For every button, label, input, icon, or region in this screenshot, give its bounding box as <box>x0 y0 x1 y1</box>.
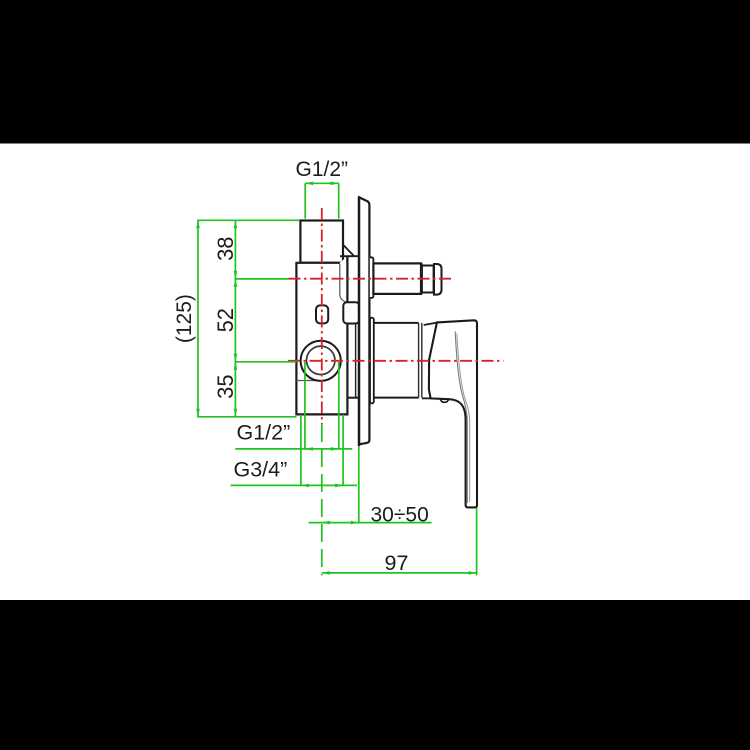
center extension dashed <box>321 424 323 575</box>
hose nut <box>422 266 434 293</box>
behind-plate upper box left edge <box>346 256 348 263</box>
inlet pipe (top) <box>300 221 343 263</box>
hub collar joint lines <box>418 323 420 398</box>
38/52/35 dimension line <box>234 220 236 417</box>
handle joint segments <box>422 323 437 399</box>
valve body <box>296 256 347 414</box>
G1/2 leader line <box>235 448 352 450</box>
top G1/2 dimension line <box>305 182 339 184</box>
bottom letterbox band <box>0 600 750 750</box>
35 arrow bottom <box>234 409 238 417</box>
mid layer line between bracket and step <box>355 324 357 398</box>
(125) top/bottom arrows <box>196 220 200 228</box>
extension line 52/35 split <box>235 361 297 363</box>
outlet port inner circle <box>307 346 335 374</box>
gusset chamfer <box>340 245 359 256</box>
top G1/2 extension lines <box>304 183 306 218</box>
svg-text:G1/2”: G1/2” <box>237 420 291 444</box>
green arrowheads <box>196 182 476 575</box>
horizontal centerline of cartridge axis <box>288 360 503 362</box>
step at body lower right <box>347 397 358 399</box>
svg-text:G3/4”: G3/4” <box>234 458 288 482</box>
bottom G3/4 extension lines <box>300 415 302 486</box>
G3/4 arrows <box>301 484 309 488</box>
wall plate <box>359 197 369 444</box>
bottom G1/2 arrows <box>305 447 313 451</box>
handle base and lever outline <box>429 320 477 507</box>
30÷50 dimension + leader line <box>309 522 432 524</box>
G3/4 leader line <box>231 484 357 486</box>
svg-text:30÷50: 30÷50 <box>371 504 429 527</box>
outlet boss line bottom-left <box>296 380 316 382</box>
svg-text:97: 97 <box>385 551 409 575</box>
horizontal centerline of diverter outlet <box>289 278 452 280</box>
pipe groove lines <box>420 263 422 294</box>
38 arrows <box>234 220 238 228</box>
97 arrows <box>322 571 330 575</box>
svg-text:52: 52 <box>213 308 238 332</box>
plate face extension <box>358 447 360 524</box>
handle end extension <box>476 508 478 575</box>
diverter pipe <box>373 263 421 294</box>
outlet port outer circle <box>301 341 341 381</box>
52 arrows <box>234 354 238 362</box>
extension line 38/52 split <box>235 278 289 280</box>
top G1/2 arrows <box>305 182 313 186</box>
svg-text:G1/2”: G1/2” <box>296 158 349 181</box>
hub flange behind handle <box>370 318 374 404</box>
extension line bottom of body <box>197 416 296 418</box>
30÷50 arrows <box>322 521 330 525</box>
hose nut rounded tip <box>434 264 442 295</box>
97 dimension line <box>322 572 477 574</box>
svg-text:38: 38 <box>213 236 238 260</box>
svg-text:(125): (125) <box>173 294 196 343</box>
inner boss line + fillet <box>340 264 348 302</box>
bump under handle base <box>441 399 449 403</box>
extension line top of body <box>197 219 299 221</box>
hub cylinder top and bottom <box>374 323 419 398</box>
handle reflection curves <box>455 332 467 504</box>
svg-text:35: 35 <box>213 374 238 398</box>
wall plate left lip <box>358 197 360 446</box>
diverter collar at plate <box>370 257 374 298</box>
vertical centerline of valve <box>321 208 323 424</box>
(125) dimension line <box>197 220 199 417</box>
top letterbox band <box>0 0 750 144</box>
set screw octagon <box>316 305 328 323</box>
bottom G1/2 extension lines <box>304 362 306 449</box>
fixing bracket (rounded) <box>343 302 359 323</box>
